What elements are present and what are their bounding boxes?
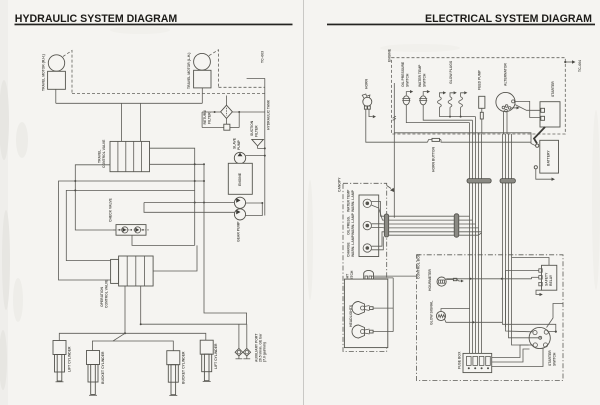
- svg-text:BATTERY: BATTERY: [547, 150, 551, 166]
- wire check valve drop: [132, 235, 195, 245]
- wires connector to bundle: [459, 216, 482, 235]
- wire starter to battery (thick): [534, 127, 545, 144]
- alternator: [496, 63, 520, 112]
- svg-text:HYDRAULIC TANK: HYDRAULIC TANK: [267, 99, 271, 130]
- svg-text:BUCKET CYLINDER: BUCKET CYLINDER: [182, 351, 186, 384]
- svg-text:HOURMETER: HOURMETER: [428, 269, 432, 291]
- svg-text:BUCKET CYLINDER: BUCKET CYLINDER: [101, 351, 105, 384]
- svg-text:OPERATION: OPERATION: [100, 287, 104, 307]
- wire battery ground: [536, 169, 555, 181]
- wire pump P1 to tank line: [246, 155, 265, 157]
- return filter: [203, 105, 232, 124]
- wires safety relay to bundle: [506, 258, 550, 328]
- feed pump: [478, 69, 485, 119]
- svg-text:ENGINE: ENGINE: [388, 48, 392, 62]
- svg-text:ALTERNATOR: ALTERNATOR: [504, 63, 508, 86]
- wire engine harness bottom A: [394, 133, 535, 146]
- tank return corner: [247, 77, 265, 79]
- title: HYDRAULIC SYSTEM DIAGRAM: [15, 13, 293, 26]
- wire oil switch: [406, 105, 469, 123]
- wires fuse box to starter switch: [492, 345, 543, 367]
- svg-text:TRAVEL MOTOR (L.H.): TRAVEL MOTOR (L.H.): [187, 53, 191, 89]
- wire glow signal top: [441, 309, 470, 312]
- travel motor (L.H.): [187, 53, 211, 89]
- wire LH motor drop: [201, 88, 203, 103]
- travel motor (R.H.): [42, 54, 66, 91]
- horn ground arrow: [369, 109, 376, 118]
- svg-text:ENGINE: ENGINE: [238, 172, 242, 186]
- wire long vertical to bottom: [204, 164, 247, 324]
- svg-text:SLAVE: SLAVE: [233, 137, 237, 149]
- svg-text:SWITCH: SWITCH: [406, 73, 410, 87]
- wires headlights: [373, 278, 393, 332]
- svg-text:TC–003: TC–003: [261, 51, 265, 63]
- wires light switch: [372, 276, 417, 278]
- svg-text:TRAVEL MOTOR (R.H.): TRAVEL MOTOR (R.H.): [42, 54, 46, 91]
- wire harness drop (with break marks): [393, 83, 396, 218]
- title: ELECTRICAL SYSTEM DIAGRAM: [327, 13, 595, 26]
- hourmeter: [428, 269, 464, 291]
- connector lamp harness: [384, 214, 388, 237]
- wire motor bus: [56, 102, 203, 104]
- node tank/suction junction: [264, 147, 266, 149]
- svg-text:WATER TEMP: WATER TEMP: [347, 189, 351, 212]
- wire valve right lower: [150, 163, 205, 165]
- wire valve feed right: [140, 103, 142, 141]
- wire glow plug bus: [439, 107, 475, 117]
- wire safety relay ground: [536, 290, 543, 296]
- wire valve feed left: [121, 103, 123, 141]
- wire alternator drops: [504, 111, 508, 134]
- wire aux port drop 1: [238, 324, 240, 349]
- svg-text:FILTER: FILTER: [255, 125, 259, 137]
- wire pump feed lower: [144, 203, 234, 213]
- connector bundle right: [500, 179, 515, 183]
- connector lamp harness right: [454, 214, 459, 237]
- wire op valve output right: [153, 245, 197, 271]
- svg-text:SWITCH: SWITCH: [553, 352, 557, 366]
- svg-text:OIL PRESS.: OIL PRESS.: [347, 216, 351, 235]
- page divider: [303, 0, 305, 405]
- harness bundle right (4 wires): [503, 134, 512, 341]
- auxiliary port couplers: [235, 333, 266, 362]
- svg-text:GEAR PUMP: GEAR PUMP: [237, 221, 241, 242]
- wire starter switch feed from relay: [547, 304, 564, 328]
- battery: [534, 140, 558, 173]
- svg-text:WARN. LAMP: WARN. LAMP: [351, 212, 355, 235]
- svg-text:FEED PUMP: FEED PUMP: [478, 69, 482, 90]
- wire water switch: [423, 105, 472, 120]
- gear pump P2: [234, 197, 245, 208]
- wire left bus B: [66, 190, 194, 260]
- svg-text:SAFETY: SAFETY: [545, 272, 549, 286]
- svg-text:STARTER: STARTER: [548, 350, 552, 366]
- pilot line (dashed) from LH motor: [209, 50, 219, 88]
- wire op valve drop A: [124, 286, 126, 333]
- lift cylinder (left): [53, 341, 72, 382]
- headlight lower: [352, 325, 373, 338]
- wire relay feed vertical: [531, 277, 533, 279]
- glow signal: [430, 301, 446, 325]
- wire pump feed upper: [144, 202, 234, 204]
- harness bundle left (5 wires): [470, 117, 482, 354]
- engine: [228, 163, 252, 194]
- svg-text:LIFT CYLINDER: LIFT CYLINDER: [214, 343, 218, 369]
- wire left bus A: [59, 181, 205, 280]
- svg-text:FILTER: FILTER: [208, 112, 212, 124]
- svg-text:HYDRAULIC SYSTEM DIAGRAM: HYDRAULIC SYSTEM DIAGRAM: [15, 13, 178, 25]
- wire return filter to pilot bus: [226, 96, 228, 106]
- return filter bypass loop: [202, 111, 265, 130]
- wire RH motor drop: [55, 89, 57, 103]
- starter switch: [529, 327, 556, 366]
- wire left return upper: [75, 165, 116, 230]
- lift cylinder (right): [200, 340, 218, 381]
- canopy (dash-dot box): [338, 177, 387, 352]
- wire hourmeter bus: [446, 278, 531, 280]
- wire feed pump: [481, 119, 483, 134]
- starter: [540, 81, 560, 127]
- wire horn feed: [366, 109, 428, 142]
- pilot line (dashed) from RH motor: [63, 51, 72, 94]
- connector bundle left: [467, 179, 491, 183]
- canopy ground arrow: [387, 186, 395, 193]
- svg-text:SWITCH: SWITCH: [423, 73, 427, 87]
- svg-text:CONTROL VALVE: CONTROL VALVE: [102, 139, 106, 168]
- pilot line (dashed) bus lower: [72, 93, 265, 95]
- svg-text:HORN BUTTON: HORN BUTTON: [432, 146, 436, 172]
- bucket cylinder (right): [167, 351, 186, 396]
- svg-text:SUCTION: SUCTION: [250, 120, 254, 136]
- wire glow signal bottom: [445, 319, 503, 322]
- wire bucket cylinder bus: [92, 333, 125, 350]
- headlights box: [344, 279, 387, 348]
- operation control valve: [100, 256, 153, 308]
- svg-text:OIL PRESSURE: OIL PRESSURE: [401, 61, 405, 87]
- svg-text:STARTER: STARTER: [551, 81, 555, 97]
- svg-text:CONTROL BOX: CONTROL BOX: [417, 253, 421, 279]
- gear pump P3: [234, 209, 245, 242]
- svg-text:(7.0 gal/min): (7.0 gal/min): [263, 342, 267, 362]
- wire auxiliary bus: [141, 323, 247, 325]
- slave pump P1: [233, 137, 246, 163]
- svg-text:LIFT CYLINDER: LIFT CYLINDER: [68, 346, 72, 372]
- svg-text:CHARGE: CHARGE: [347, 242, 351, 257]
- wires bundle right to starter switch: [503, 323, 557, 345]
- hydraulic tank line: [264, 78, 266, 215]
- svg-text:WATER TEMP: WATER TEMP: [418, 64, 422, 87]
- fuse box: [458, 351, 492, 373]
- svg-text:HORN: HORN: [365, 78, 369, 89]
- svg-text:TRAVEL: TRAVEL: [98, 150, 102, 163]
- bucket cylinder (left): [87, 351, 106, 396]
- wire lift cylinder bus: [59, 333, 206, 340]
- pilot line (dashed) bus upper: [219, 86, 265, 88]
- safety relay: [539, 265, 557, 290]
- light switch: [346, 270, 374, 284]
- wires lamps to connector: [372, 202, 385, 250]
- wire pumps to tank line: [246, 203, 263, 216]
- svg-text:ELECTRICAL SYSTEM DIAGRAM: ELECTRICAL SYSTEM DIAGRAM: [425, 13, 592, 25]
- horn: [362, 78, 372, 109]
- wire op valve drop B: [140, 286, 142, 324]
- check valve: [109, 197, 150, 235]
- wire aux port drop 2: [246, 324, 248, 349]
- svg-text:CONTROL VALVE: CONTROL VALVE: [105, 279, 109, 308]
- oil pressure switch: [401, 61, 413, 105]
- svg-text:GLOW PLUGS: GLOW PLUGS: [449, 60, 453, 84]
- wire alternator to starter: [515, 101, 541, 117]
- svg-text:TC–004: TC–004: [578, 60, 582, 72]
- svg-text:CANOPY: CANOPY: [338, 177, 342, 192]
- travel control valve: [98, 139, 150, 172]
- suction filter: [250, 120, 265, 148]
- wires lamp harness crossing: [389, 216, 455, 235]
- control box (dash-dot): [417, 253, 564, 380]
- svg-text:RELAY: RELAY: [549, 274, 553, 286]
- svg-text:WARN. LAMP: WARN. LAMP: [351, 234, 355, 257]
- water temp switch: [418, 64, 430, 105]
- glow plugs: [438, 60, 468, 107]
- headlight upper: [352, 302, 373, 315]
- warning lamp cluster: [347, 189, 379, 257]
- wire valve right upper: [150, 148, 195, 245]
- horn button: [428, 138, 532, 172]
- node engine box to page arrow: [564, 60, 575, 64]
- svg-text:PUMP: PUMP: [237, 139, 241, 150]
- engine compartment (dashed box): [388, 48, 566, 134]
- svg-text:FUSE BOX: FUSE BOX: [458, 351, 462, 369]
- svg-text:WARN. LAMP: WARN. LAMP: [351, 189, 355, 212]
- svg-text:GLOW SIGNAL: GLOW SIGNAL: [430, 301, 434, 325]
- svg-text:CHECK VALVE: CHECK VALVE: [109, 197, 113, 222]
